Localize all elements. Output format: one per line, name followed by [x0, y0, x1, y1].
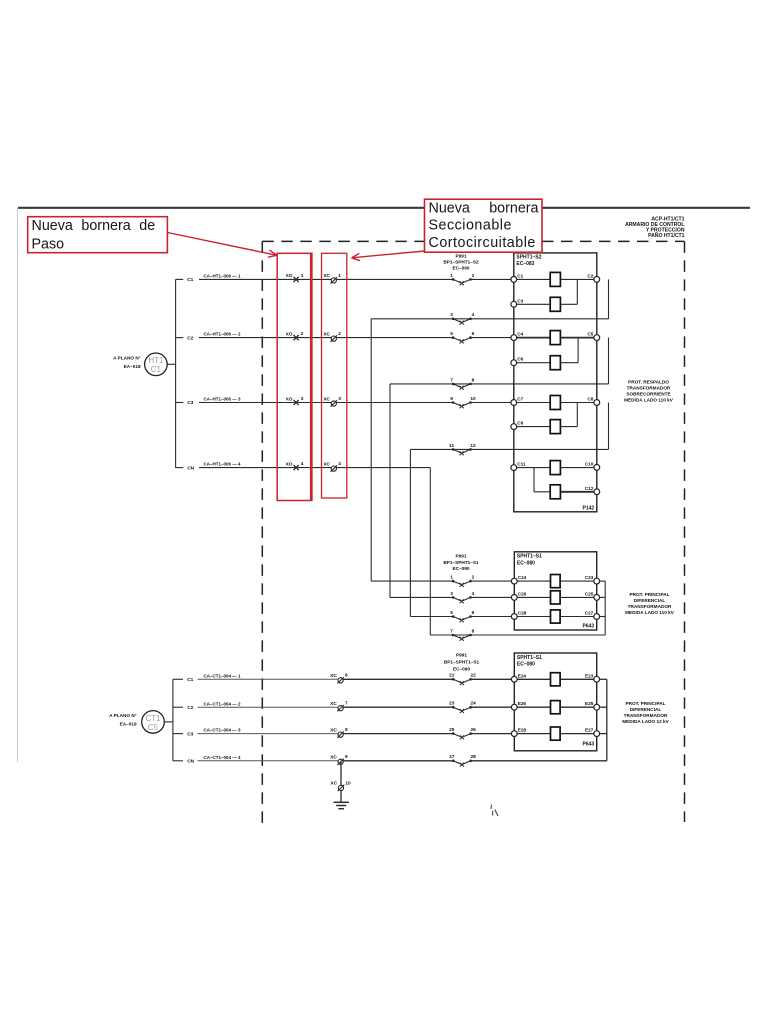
svg-text:C1: C1: [187, 277, 193, 283]
svg-text:BP1–SPHT1–S2: BP1–SPHT1–S2: [443, 259, 479, 264]
svg-text:C10: C10: [585, 461, 594, 466]
svg-text:XC: XC: [323, 396, 330, 402]
svg-text:2: 2: [472, 575, 475, 581]
svg-text:EC–090: EC–090: [453, 666, 470, 671]
svg-text:XC: XC: [330, 727, 337, 733]
svg-text:XC: XC: [331, 781, 338, 787]
svg-text:4: 4: [472, 591, 475, 597]
svg-text:C6: C6: [517, 357, 523, 362]
svg-text:23: 23: [449, 701, 455, 707]
svg-text:DIFERENCIAL: DIFERENCIAL: [630, 707, 662, 712]
svg-text:E26: E26: [518, 701, 527, 706]
svg-text:EC–080: EC–080: [517, 560, 535, 566]
svg-text:C23: C23: [585, 575, 594, 580]
svg-text:P643: P643: [583, 741, 595, 747]
svg-text:4: 4: [472, 312, 475, 318]
svg-text:P991: P991: [456, 554, 467, 559]
svg-text:CN: CN: [187, 465, 194, 471]
svg-text:C28: C28: [518, 611, 527, 616]
svg-text:C2: C2: [187, 705, 193, 711]
svg-text:XC: XC: [323, 273, 330, 279]
svg-text:XO: XO: [286, 273, 293, 279]
svg-text:10: 10: [345, 780, 351, 786]
svg-text:P643: P643: [583, 624, 595, 630]
svg-text:E25: E25: [585, 701, 594, 706]
svg-text:3: 3: [301, 396, 304, 402]
svg-text:A PLANO N°: A PLANO N°: [113, 355, 141, 360]
svg-text:C5: C5: [148, 723, 159, 732]
svg-text:C5: C5: [587, 332, 593, 337]
svg-text:6: 6: [472, 331, 475, 337]
svg-text:P991: P991: [456, 253, 467, 258]
svg-text:C1: C1: [187, 677, 193, 683]
svg-text:2: 2: [301, 331, 304, 337]
svg-text:P142: P142: [583, 506, 595, 512]
svg-text:EC–090: EC–090: [453, 566, 470, 571]
svg-text:HT1: HT1: [148, 356, 164, 365]
svg-text:XO: XO: [286, 396, 293, 402]
svg-text:SPHT1–S1: SPHT1–S1: [517, 554, 542, 560]
svg-text:C26: C26: [518, 591, 527, 596]
svg-text:EC–083: EC–083: [516, 261, 534, 267]
svg-text:CA–CT1–004 — 2: CA–CT1–004 — 2: [204, 701, 242, 706]
svg-text:SOBRECORRIENTE: SOBRECORRIENTE: [626, 392, 670, 397]
svg-text:C24: C24: [518, 575, 527, 580]
svg-text:EC–080: EC–080: [517, 662, 535, 668]
svg-text:XC: XC: [330, 701, 337, 707]
svg-text:12: 12: [470, 443, 476, 449]
svg-text:11: 11: [449, 443, 454, 449]
svg-text:SPHT1–S1: SPHT1–S1: [517, 655, 542, 661]
svg-text:PROT. PRINCIPAL: PROT. PRINCIPAL: [625, 701, 665, 706]
svg-text:1: 1: [301, 273, 304, 279]
svg-text:E27: E27: [585, 728, 594, 733]
svg-text:22: 22: [471, 673, 477, 679]
svg-text:C3: C3: [517, 298, 523, 303]
svg-text:CA–HT1–006 — 2: CA–HT1–006 — 2: [204, 332, 242, 337]
svg-text:6: 6: [472, 610, 475, 616]
svg-text:CA–HT1–006 — 3: CA–HT1–006 — 3: [204, 397, 242, 402]
svg-text:Nueva: Nueva: [429, 200, 470, 216]
svg-text:C7: C7: [517, 397, 523, 402]
svg-text:C9: C9: [517, 421, 523, 426]
svg-text:E23: E23: [585, 673, 594, 678]
svg-text:2: 2: [338, 331, 341, 337]
svg-text:26: 26: [471, 727, 477, 733]
svg-text:5: 5: [450, 610, 453, 616]
svg-text:C1: C1: [151, 365, 162, 374]
svg-text:CA–CT1–004 — 1: CA–CT1–004 — 1: [204, 673, 242, 678]
svg-text:25: 25: [449, 727, 455, 733]
svg-text:BP1–SPHT1–S1: BP1–SPHT1–S1: [443, 560, 479, 565]
svg-text:4: 4: [338, 461, 341, 467]
svg-text:E24: E24: [518, 673, 527, 678]
svg-text:PAÑO HT1/CT1: PAÑO HT1/CT1: [648, 232, 685, 239]
svg-text:Cortocircuitable: Cortocircuitable: [429, 235, 536, 251]
svg-text:XC: XC: [330, 755, 337, 761]
svg-text:9: 9: [345, 754, 348, 760]
svg-text:Seccionable: Seccionable: [429, 218, 512, 234]
svg-text:bornera: bornera: [489, 200, 538, 216]
svg-text:CA–CT1–004 — 4: CA–CT1–004 — 4: [204, 755, 242, 760]
svg-text:1: 1: [450, 273, 453, 279]
svg-text:PROT. PRINCIPAL: PROT. PRINCIPAL: [629, 592, 669, 597]
svg-text:9: 9: [450, 396, 453, 402]
svg-text:MEDIDA LADO 110 kV: MEDIDA LADO 110 kV: [624, 398, 674, 403]
svg-text:21: 21: [449, 673, 455, 679]
svg-text:2: 2: [472, 273, 475, 279]
svg-text:TRANSFORMADOR: TRANSFORMADOR: [627, 385, 671, 390]
svg-text:3: 3: [338, 396, 341, 402]
svg-text:8: 8: [472, 377, 475, 383]
svg-text:CN: CN: [187, 759, 194, 765]
svg-text:CT1: CT1: [145, 714, 161, 723]
svg-text:CA–HT1–006 — 1: CA–HT1–006 — 1: [204, 274, 242, 279]
svg-text:28: 28: [471, 754, 477, 760]
svg-text:6: 6: [345, 673, 348, 679]
svg-text:C2: C2: [587, 273, 593, 278]
svg-text:A PLANO N°: A PLANO N°: [109, 713, 137, 718]
svg-text:C3: C3: [187, 400, 193, 406]
svg-text:C3: C3: [187, 731, 193, 737]
svg-text:C25: C25: [585, 591, 594, 596]
svg-text:EA–018: EA–018: [124, 364, 141, 369]
svg-text:24: 24: [471, 701, 477, 707]
svg-text:3: 3: [450, 312, 453, 318]
svg-text:Nueva bornera de: Nueva bornera de: [32, 218, 156, 234]
svg-text:8: 8: [345, 727, 348, 733]
svg-text:27: 27: [449, 754, 455, 760]
svg-text:8: 8: [472, 628, 475, 634]
svg-text:3: 3: [450, 591, 453, 597]
svg-text:Paso: Paso: [32, 237, 65, 253]
svg-text:E28: E28: [518, 728, 527, 733]
svg-text:CA–HT1–006 — 4: CA–HT1–006 — 4: [204, 462, 242, 467]
svg-text:MEDIDA LADO 12 kV: MEDIDA LADO 12 kV: [622, 719, 669, 724]
svg-text:BP1–SPHT1–S1: BP1–SPHT1–S1: [444, 659, 480, 664]
svg-text:C4: C4: [517, 332, 523, 337]
svg-text:10: 10: [470, 396, 476, 402]
svg-text:EA–019: EA–019: [120, 722, 137, 727]
svg-text:C11: C11: [517, 462, 526, 467]
svg-text:XC: XC: [323, 461, 330, 467]
svg-text:5: 5: [450, 331, 453, 337]
svg-text:1: 1: [450, 575, 453, 581]
svg-text:C1: C1: [517, 273, 523, 278]
svg-text:MEDIDA LADO 110 kV: MEDIDA LADO 110 kV: [625, 610, 675, 615]
svg-text:7: 7: [450, 377, 453, 383]
svg-text:XO: XO: [286, 461, 293, 467]
svg-text:XC: XC: [330, 673, 337, 679]
svg-text:C12: C12: [585, 486, 594, 491]
svg-text:XO: XO: [286, 331, 293, 337]
svg-text:EC–090: EC–090: [453, 266, 470, 271]
svg-text:TRANSFORMADOR: TRANSFORMADOR: [628, 604, 672, 609]
svg-text:C27: C27: [585, 611, 594, 616]
svg-text:7: 7: [450, 628, 453, 634]
svg-text:CA–CT1–004 — 3: CA–CT1–004 — 3: [204, 728, 242, 733]
svg-text:PROT. RESPALDO: PROT. RESPALDO: [628, 379, 669, 384]
svg-text:7: 7: [345, 701, 348, 707]
svg-text:SPHT1–S2: SPHT1–S2: [516, 254, 541, 260]
svg-text:4: 4: [301, 461, 304, 467]
svg-text:XC: XC: [323, 331, 330, 337]
svg-text:P991: P991: [456, 652, 467, 657]
svg-text:C8: C8: [587, 397, 593, 402]
svg-text:C2: C2: [187, 335, 193, 341]
svg-text:DIFERENCIAL: DIFERENCIAL: [634, 598, 666, 603]
svg-text:1: 1: [338, 273, 341, 279]
svg-text:TRANSFORMADOR: TRANSFORMADOR: [624, 713, 668, 718]
